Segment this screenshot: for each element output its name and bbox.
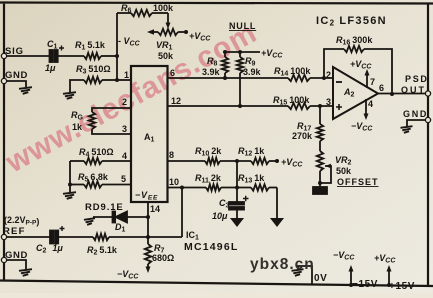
- pin4 -Vcc arrow: [351, 99, 373, 133]
- resistor R6 100k: [117, 3, 174, 16]
- pin7 +Vcc arrow: [350, 59, 375, 88]
- svg-text:5: 5: [121, 174, 126, 184]
- wire C2 to R2: [58, 236, 93, 238]
- wire R6 to VR1 wiper: [166, 13, 171, 29]
- label +Vcc R12: [281, 157, 303, 169]
- node GND upper-left terminal: [1, 70, 28, 84]
- ground C3: [230, 218, 244, 227]
- resistor R10 2k: [195, 146, 251, 164]
- capacitor C3 10u: [212, 161, 249, 221]
- svg-text:OFFSET: OFFSET: [337, 177, 379, 187]
- label 2.2Vpp: [4, 215, 39, 227]
- svg-text:RD9.1E: RD9.1E: [85, 202, 124, 213]
- svg-text:PSD: PSD: [405, 74, 429, 84]
- ground R3: [63, 92, 76, 99]
- label +Vcc null: [261, 48, 283, 60]
- node GND right terminal: [403, 109, 431, 126]
- wire REF to C2: [6, 236, 50, 238]
- svg-text:OUT: OUT: [401, 85, 426, 95]
- resistor RG 1k: [71, 97, 131, 134]
- resistor R15 100k: [273, 95, 333, 109]
- capacitor C1 1u: [45, 39, 64, 73]
- svg-text:4: 4: [122, 151, 127, 161]
- svg-text:50k: 50k: [336, 166, 352, 176]
- svg-text:14: 14: [150, 204, 160, 214]
- op-amp A2: [326, 67, 378, 119]
- potentiometer VR1 50k: [147, 29, 188, 61]
- wire node A to pin1: [117, 70, 131, 80]
- wire GND lower to ground: [6, 260, 26, 269]
- svg-text:10μ: 10μ: [212, 211, 228, 221]
- ground R4 R5: [63, 192, 76, 199]
- label IC2 LF356N: [316, 15, 387, 28]
- diode D1 RD9.1E: [85, 202, 148, 234]
- node SIG input terminal: [1, 46, 23, 59]
- label -Vcc VR1: [118, 36, 141, 48]
- wire output: [378, 83, 425, 94]
- wire R1 to node A: [101, 54, 119, 58]
- svg-text:+15V: +15V: [389, 281, 415, 292]
- label -15V: [352, 279, 378, 290]
- resistor R11 2k: [195, 173, 251, 191]
- svg-text:R16300k: R16300k: [336, 35, 373, 47]
- node GND lower-left terminal: [1, 250, 28, 263]
- label -Vcc bottom: [333, 250, 355, 262]
- resistor R16 300k feedback: [322, 35, 394, 96]
- resistor R13 1k: [238, 173, 277, 191]
- ground VR2: [313, 183, 327, 194]
- capacitor C2 1u: [36, 226, 65, 255]
- svg-text:IC2LF356N: IC2LF356N: [316, 15, 387, 28]
- svg-text:R25.1k: R25.1k: [87, 245, 118, 257]
- svg-text:100k: 100k: [153, 3, 174, 13]
- wire +15V arrow: [387, 265, 392, 287]
- wire pin6 line: [168, 68, 289, 78]
- svg-text:R15100k: R15100k: [273, 95, 310, 107]
- svg-text:6: 6: [170, 68, 175, 78]
- svg-text:7: 7: [370, 77, 375, 87]
- resistor R14 100k: [274, 66, 333, 81]
- svg-text:GND: GND: [5, 70, 28, 81]
- wire GND to ground: [6, 81, 26, 87]
- ground lower-left: [19, 269, 32, 276]
- node REF terminal: [1, 226, 25, 240]
- wire node A vertical: [115, 13, 119, 82]
- svg-text:−15V: −15V: [352, 279, 378, 290]
- svg-text:ybx8.cn: ybx8.cn: [250, 256, 315, 273]
- svg-text:R4510Ω: R4510Ω: [79, 147, 114, 159]
- label -Vcc R7: [117, 269, 139, 281]
- svg-text:GND: GND: [403, 109, 428, 119]
- resistor R8 3.9k: [202, 52, 228, 80]
- potentiometer VR2 50k: [317, 151, 379, 187]
- svg-text:1: 1: [124, 70, 129, 80]
- ground R13: [270, 218, 284, 227]
- svg-text:1μ: 1μ: [45, 63, 56, 73]
- resistor R7 680: [145, 237, 174, 273]
- svg-text:8: 8: [169, 150, 174, 160]
- ground D1: [84, 218, 95, 225]
- resistor R2 5.1k: [87, 234, 118, 257]
- svg-text:1k: 1k: [72, 122, 83, 132]
- ground right: [401, 126, 413, 133]
- resistor R9 3.9k: [237, 52, 262, 108]
- svg-text:3: 3: [122, 124, 127, 134]
- svg-text:12: 12: [171, 96, 181, 106]
- resistor R3 510: [70, 64, 117, 92]
- wire SIG to C1: [6, 55, 49, 57]
- wire -15V arrow: [349, 265, 354, 287]
- wire R2 to junction: [109, 235, 182, 239]
- resistor R12 1k: [238, 146, 279, 164]
- svg-text:270k: 270k: [292, 131, 313, 141]
- resistor R17 270k: [292, 104, 323, 151]
- wire R13 to ground: [276, 188, 278, 219]
- svg-text:3.9k: 3.9k: [243, 67, 262, 77]
- label +15V: [389, 281, 415, 292]
- resistor R5 6.8k: [68, 161, 131, 192]
- svg-text:3.9k: 3.9k: [202, 67, 221, 77]
- wire pin12 line: [168, 96, 289, 106]
- svg-text:4: 4: [368, 99, 373, 109]
- svg-text:REF: REF: [3, 226, 26, 237]
- resistor R1 5.1k: [75, 40, 106, 59]
- svg-text:2: 2: [326, 70, 331, 80]
- svg-text:R15.1k: R15.1k: [75, 40, 106, 52]
- wire C1 to R1: [58, 55, 84, 57]
- svg-text:R56.8k: R56.8k: [78, 172, 109, 184]
- svg-text:3: 3: [326, 97, 331, 107]
- svg-text:0V: 0V: [314, 273, 327, 284]
- wire pin14: [146, 202, 160, 237]
- svg-text:10: 10: [169, 177, 179, 187]
- svg-text:NULL: NULL: [229, 21, 256, 31]
- svg-text:MC1496L: MC1496L: [184, 241, 239, 253]
- wire 0V stub: [298, 266, 312, 284]
- ground 0V: [292, 269, 304, 276]
- svg-text:50k: 50k: [158, 51, 174, 61]
- wire pin10 line: [168, 177, 207, 190]
- svg-text:R14100k: R14100k: [274, 66, 311, 78]
- label +Vcc bottom: [374, 253, 396, 265]
- svg-text:2: 2: [122, 97, 127, 107]
- svg-text:6: 6: [379, 83, 384, 93]
- node PSD OUT terminal: [401, 74, 431, 96]
- svg-text:680Ω: 680Ω: [152, 253, 174, 263]
- wire R8 R9 top bar: [223, 50, 260, 54]
- ground upper-left: [19, 87, 32, 94]
- label IC1 MC1496L: [184, 230, 239, 253]
- label 0V: [314, 273, 327, 284]
- wire pin8 line: [168, 150, 206, 161]
- svg-text:R3510Ω: R3510Ω: [76, 64, 111, 76]
- op-amp block A1 MC1496: [131, 66, 168, 202]
- resistor R4 510: [70, 147, 131, 164]
- label +Vcc VR1: [189, 31, 211, 43]
- label NULL: [229, 21, 256, 31]
- wire junction up to pin10: [181, 188, 183, 238]
